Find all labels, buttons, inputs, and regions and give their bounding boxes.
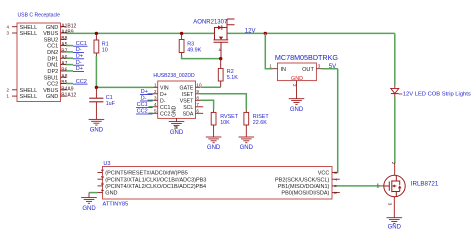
wire 5v to vcc — [336, 69, 339, 173]
svg-text:(PCINT4/XTAL2/CLKO/OC1B/ADC2)P: (PCINT4/XTAL2/CLKO/OC1B/ADC2)PB4 — [105, 184, 206, 190]
ground u3 — [81, 198, 97, 204]
svg-text:GND: GND — [105, 191, 117, 197]
svg-text:(PCINT3/XTAL1/CLKI/OC1B#/ADC3): (PCINT3/XTAL1/CLKI/OC1B#/ADC3)PB3 — [105, 177, 206, 183]
node gate junction — [219, 57, 222, 60]
svg-text:2: 2 — [391, 162, 396, 165]
wire vin — [96, 86, 153, 88]
svg-text:3: 3 — [318, 64, 321, 69]
wire dp2 stub — [66, 70, 73, 72]
svg-text:HUSB238_002DD: HUSB238_002DD — [153, 73, 195, 79]
svg-text:D-: D- — [160, 98, 166, 104]
svg-text:1: 1 — [376, 184, 379, 190]
svg-text:MC78M05BDTRKG: MC78M05BDTRKG — [275, 53, 339, 62]
svg-text:PB2(SCK/USCK/SCL): PB2(SCK/USCK/SCL) — [275, 177, 330, 183]
svg-text:1: 1 — [269, 64, 272, 69]
svg-text:SHELL: SHELL — [20, 31, 38, 37]
wire r3 to gate — [182, 56, 221, 59]
svg-text:A4B9: A4B9 — [61, 30, 73, 36]
svg-text:ATTINY85: ATTINY85 — [103, 202, 129, 208]
svg-text:GND: GND — [46, 94, 58, 100]
svg-text:GATE: GATE — [180, 85, 194, 91]
wire r2 to GATE pin — [201, 86, 221, 88]
resistor R2 leads — [220, 59, 222, 88]
resistor RISET 22.6K — [244, 112, 249, 125]
svg-text:12V LED COB Strip Lights: 12V LED COB Strip Lights — [403, 92, 471, 98]
pins U3 right — [332, 172, 337, 174]
ground rvset — [206, 137, 222, 143]
svg-text:B4A9: B4A9 — [61, 86, 73, 92]
svg-text:1uF: 1uF — [106, 101, 116, 107]
svg-text:VBUS: VBUS — [43, 88, 59, 94]
svg-text:ISET: ISET — [182, 92, 194, 98]
pin 1 gate — [381, 185, 384, 187]
svg-text:8: 8 — [196, 96, 199, 101]
svg-text:GND: GND — [290, 107, 304, 113]
wire dn1 stub — [66, 64, 73, 66]
svg-text:VSET: VSET — [180, 98, 194, 104]
pin 2 drain — [394, 164, 396, 176]
svg-text:B8: B8 — [61, 36, 67, 42]
pins U3 left — [98, 172, 103, 174]
svg-text:22.6K: 22.6K — [253, 120, 267, 126]
wire vset — [201, 100, 214, 109]
node VIN junction — [95, 86, 98, 89]
svg-text:CC2: CC2 — [160, 111, 170, 117]
resistor R1 leads — [95, 33, 97, 56]
svg-text:GND: GND — [388, 225, 402, 231]
svg-text:AONR21307: AONR21307 — [193, 20, 228, 26]
svg-text:10K: 10K — [220, 120, 230, 126]
svg-text:CC1: CC1 — [47, 44, 58, 50]
svg-text:10: 10 — [196, 83, 202, 88]
wire cc1 stub — [66, 45, 73, 47]
svg-text:3: 3 — [388, 203, 393, 206]
svg-text:5.1K: 5.1K — [227, 75, 238, 81]
svg-text:6: 6 — [196, 109, 199, 114]
svg-text:DN2: DN2 — [47, 50, 58, 56]
resistor RVSET leads — [213, 109, 215, 128]
svg-text:7: 7 — [196, 102, 199, 107]
svg-text:IRLB8721: IRLB8721 — [411, 181, 439, 188]
svg-text:3: 3 — [154, 96, 157, 101]
pin 3 source — [393, 197, 395, 218]
wire reg in — [265, 33, 272, 68]
wire husb d+ — [148, 93, 154, 95]
no-connect PB2 PB0 — [337, 179, 340, 192]
pins U4 — [273, 69, 322, 86]
svg-text:VCC: VCC — [318, 171, 330, 177]
wire 12v right vertical — [394, 33, 396, 86]
svg-text:9: 9 — [196, 89, 199, 94]
svg-text:GND: GND — [291, 76, 303, 82]
wire dn2 stub — [66, 51, 73, 53]
svg-text:SBU1: SBU1 — [44, 75, 59, 81]
svg-text:CC2: CC2 — [47, 82, 58, 88]
resistor RISET leads — [245, 109, 247, 128]
svg-text:10: 10 — [102, 47, 108, 53]
pins right stubs — [61, 26, 67, 28]
svg-text:USB C Receptacle: USB C Receptacle — [18, 13, 61, 19]
svg-text:DP2: DP2 — [47, 69, 58, 75]
svg-text:D+: D+ — [160, 92, 167, 98]
wire u3 gnd — [89, 192, 98, 194]
resistor RVSET 10K — [211, 112, 216, 125]
resistor R2 5.1K — [218, 68, 223, 81]
wire husb cc2 — [149, 112, 154, 114]
svg-text:DP1: DP1 — [47, 56, 58, 62]
svg-text:5: 5 — [154, 109, 157, 114]
svg-text:GND: GND — [240, 145, 254, 151]
wire iset — [201, 94, 247, 110]
node junction regulator input — [264, 32, 267, 35]
svg-text:4: 4 — [154, 102, 157, 107]
pin SHELL stubs left — [12, 26, 17, 28]
svg-text:5V: 5V — [329, 64, 336, 70]
svg-text:OUT: OUT — [302, 67, 314, 73]
wire led to drain — [394, 98, 396, 164]
wire RVSET RISET ground stems — [214, 128, 247, 137]
svg-text:SHELL: SHELL — [20, 25, 38, 31]
svg-text:VIN: VIN — [160, 85, 169, 91]
svg-text:VBUS: VBUS — [43, 31, 59, 37]
svg-text:SDA: SDA — [183, 111, 194, 117]
wire pb1 gate — [337, 185, 381, 187]
svg-text:(PCINT5/RESET#/ADC0/dW)PB5: (PCINT5/RESET#/ADC0/dW)PB5 — [105, 171, 188, 177]
wire vbus rail — [66, 32, 395, 34]
capacitor C1 1uF — [95, 87, 97, 98]
svg-text:49.9K: 49.9K — [187, 47, 201, 53]
wire husb d- — [148, 99, 154, 101]
node VBUS junction R1 — [95, 32, 98, 35]
svg-text:GND: GND — [46, 25, 58, 31]
wire r1 bottom — [95, 56, 97, 87]
svg-text:GND: GND — [170, 130, 184, 136]
svg-text:CC1: CC1 — [160, 105, 170, 111]
resistor R3 leads — [181, 33, 183, 55]
svg-text:GND: GND — [172, 105, 178, 117]
pins left — [153, 86, 158, 88]
svg-text:A8: A8 — [61, 74, 67, 80]
svg-text:2: 2 — [154, 89, 157, 94]
ground q2 — [387, 218, 403, 224]
svg-text:GND: GND — [90, 128, 104, 134]
svg-text:DN1: DN1 — [47, 63, 58, 69]
svg-text:IN: IN — [281, 67, 287, 73]
resistor R1 10 — [94, 40, 99, 53]
svg-text:B1A12: B1A12 — [61, 93, 76, 99]
wire cc2 stub — [66, 83, 73, 85]
pin 11 GND stub — [176, 118, 178, 121]
node junction R3 — [180, 32, 183, 35]
svg-text:A1B12: A1B12 — [61, 23, 76, 29]
wire regulator ground stem — [296, 86, 298, 99]
svg-text:SHELL: SHELL — [20, 94, 38, 100]
svg-text:12V: 12V — [245, 28, 256, 34]
transistor Q1 AONR21307 P-MOSFET — [214, 19, 235, 59]
resistor R3 49.9K — [179, 40, 184, 53]
svg-text:PB0(MOSI/DI/SDA): PB0(MOSI/DI/SDA) — [281, 191, 329, 197]
ground husb — [169, 122, 185, 128]
svg-text:SBU2: SBU2 — [44, 37, 59, 43]
ground reg — [289, 99, 305, 105]
svg-text:GND: GND — [207, 145, 221, 151]
pins right — [196, 86, 201, 88]
ground c1 — [89, 119, 105, 125]
svg-text:1: 1 — [154, 83, 157, 88]
svg-text:SCL: SCL — [183, 105, 193, 111]
transistor Q2 IRLB8721 N-MOSFET — [384, 175, 405, 196]
LED D1 12V LED COB Strip Lights — [394, 86, 396, 88]
wire dp1 stub — [66, 57, 73, 59]
no-connect SCL SDA — [201, 107, 204, 114]
svg-text:GND: GND — [82, 206, 96, 212]
svg-text:SHELL: SHELL — [20, 88, 38, 94]
svg-text:PB1(MISO/DO/AIN1): PB1(MISO/DO/AIN1) — [278, 184, 330, 190]
wire husb cc1 — [149, 106, 154, 108]
wire reg out — [322, 68, 338, 70]
ground riset — [239, 137, 255, 143]
